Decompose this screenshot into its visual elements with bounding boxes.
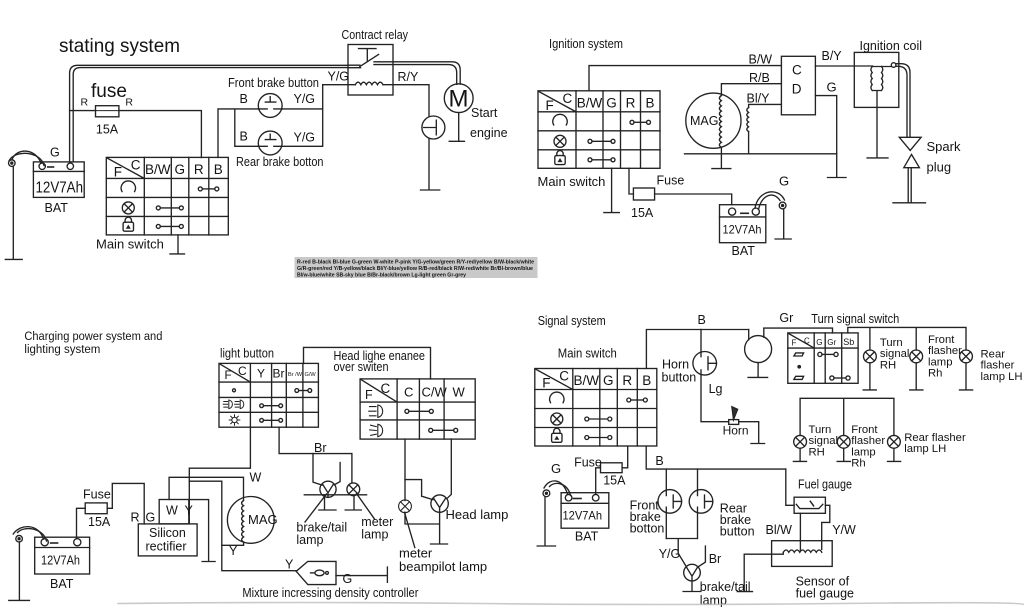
svg-text:MAG: MAG [248,512,278,527]
svg-text:fuel gauge: fuel gauge [796,587,854,601]
svg-text:G: G [816,338,822,347]
svg-text:Fuse: Fuse [574,456,602,470]
svg-text:Turn: Turn [809,424,832,436]
svg-text:Horn: Horn [723,424,749,438]
svg-text:Turn signal switch: Turn signal switch [811,312,899,326]
svg-text:C: C [238,364,247,378]
svg-text:Signal system: Signal system [538,314,606,328]
svg-text:12V7Ah: 12V7Ah [563,509,603,523]
svg-text:W: W [250,471,262,485]
svg-text:RH: RH [809,446,825,458]
svg-text:C: C [404,385,413,400]
svg-text:12V7Ah: 12V7Ah [41,554,80,568]
svg-text:Silicon: Silicon [149,526,186,540]
svg-text:G: G [779,174,789,189]
svg-text:stating system: stating system [59,35,180,57]
svg-text:W: W [453,385,466,400]
svg-text:Fuse: Fuse [83,488,111,502]
svg-text:signal: signal [809,435,839,447]
svg-text:BAT: BAT [50,577,74,591]
svg-text:Contract relay: Contract relay [342,27,409,42]
svg-text:Rear: Rear [981,349,1006,361]
svg-text:Rear brake botton: Rear brake botton [236,155,324,169]
svg-text:lamp: lamp [296,533,323,547]
svg-text:Fuse: Fuse [657,174,685,188]
svg-text:RH: RH [880,359,896,371]
svg-text:B: B [698,313,706,327]
svg-text:Main switch: Main switch [558,346,617,361]
svg-text:R: R [125,97,133,109]
svg-text:Y: Y [257,367,265,381]
svg-text:R/Y: R/Y [398,70,420,84]
svg-text:BAT: BAT [575,530,599,544]
svg-text:B: B [240,92,248,106]
svg-text:D: D [792,82,802,97]
svg-text:G: G [827,80,837,95]
svg-text:12V7Ah: 12V7Ah [723,223,762,237]
svg-text:Main switch: Main switch [538,174,606,189]
svg-text:Bl/W: Bl/W [766,523,793,537]
svg-text:15A: 15A [603,474,626,488]
svg-text:Spark: Spark [927,139,961,154]
svg-text:R: R [81,97,89,109]
svg-text:Lg: Lg [709,382,723,396]
svg-text:B: B [240,130,248,144]
svg-text:C/W: C/W [422,385,448,400]
svg-text:15A: 15A [631,206,654,220]
svg-text:rectifier: rectifier [146,540,187,554]
svg-text:Br /W: Br /W [288,372,303,378]
svg-text:G: G [343,572,353,586]
svg-text:Y: Y [185,504,194,518]
svg-text:flasher: flasher [928,345,962,357]
svg-text:G: G [551,461,561,476]
svg-text:C: C [792,63,802,78]
svg-text:Charging power system and: Charging power system and [24,329,162,343]
svg-text:Br: Br [273,367,285,381]
svg-text:G: G [146,511,156,525]
svg-text:BAT: BAT [732,244,756,258]
svg-text:beampilot lamp: beampilot lamp [399,559,487,574]
svg-text:Y/W: Y/W [832,523,856,537]
svg-text:Br: Br [709,552,722,566]
svg-text:Front brake button: Front brake button [228,76,319,90]
svg-text:W: W [166,504,178,518]
svg-text:F: F [792,339,797,348]
svg-text:Y/G: Y/G [294,92,316,106]
svg-text:M: M [449,86,469,113]
svg-text:Fuel gauge: Fuel gauge [798,478,852,492]
svg-text:lamp LH: lamp LH [904,443,946,455]
svg-text:B/W: B/W [749,53,773,67]
svg-text:Gr: Gr [779,311,793,325]
svg-text:C: C [381,381,391,396]
svg-text:R: R [131,511,140,525]
svg-text:Y/G: Y/G [328,70,350,84]
svg-text:Br: Br [314,441,327,455]
svg-text:engine: engine [470,126,508,140]
svg-text:Y/G: Y/G [294,131,316,145]
svg-text:Y: Y [229,544,238,558]
svg-text:G/R-green/red Y/B-yellow/black: G/R-green/red Y/B-yellow/black Bl/Y-blue… [297,266,534,272]
svg-text:Sb: Sb [843,337,854,347]
svg-text:Mixture incressing density con: Mixture incressing density controller [242,586,418,600]
svg-text:lamp: lamp [851,446,876,458]
svg-text:F: F [365,388,373,402]
svg-text:lighting system: lighting system [24,342,100,356]
svg-text:B/Y: B/Y [822,49,843,63]
svg-text:Rh: Rh [851,458,865,470]
svg-text:Bl/Y: Bl/Y [747,92,771,106]
svg-text:MAG: MAG [690,114,718,128]
svg-text:lamp: lamp [361,528,388,542]
svg-text:G/W: G/W [305,372,317,378]
svg-text:Rear flasher: Rear flasher [904,432,966,444]
svg-text:R-red B-black Bl-blue G-green: R-red B-black Bl-blue G-green W-white P-… [297,260,535,266]
svg-text:Horn: Horn [662,358,689,372]
svg-text:Y: Y [285,558,294,572]
svg-text:button: button [720,525,755,539]
svg-text:light button: light button [220,346,274,361]
svg-text:C: C [804,337,810,346]
svg-text:plug: plug [927,160,952,175]
svg-text:Turn: Turn [880,337,903,349]
svg-text:Start: Start [471,106,498,120]
svg-text:Gr: Gr [827,338,836,347]
svg-text:F: F [225,370,232,382]
svg-text:Main switch: Main switch [96,237,164,252]
svg-text:BAT: BAT [45,201,69,215]
svg-text:lamp LH: lamp LH [981,371,1023,383]
svg-text:R/B: R/B [749,71,770,85]
svg-text:Rh: Rh [928,368,942,380]
svg-text:flasher: flasher [981,360,1015,372]
svg-text:over switen: over switen [334,360,389,374]
svg-text:15A: 15A [96,123,119,137]
svg-text:lamp: lamp [928,356,953,368]
svg-text:12V7Ah: 12V7Ah [36,180,84,197]
svg-text:Ignition coil: Ignition coil [860,39,923,53]
svg-text:lamp: lamp [700,594,727,608]
svg-text:Front: Front [851,424,878,436]
svg-text:signal: signal [880,348,910,360]
svg-text:flasher: flasher [851,435,885,447]
svg-text:botton: botton [630,522,665,536]
svg-text:fuse: fuse [91,81,127,102]
svg-text:Head lamp: Head lamp [446,507,509,522]
svg-text:Bl/w-blue/white SB-sky blue B/: Bl/w-blue/white SB-sky blue B/Br-black/b… [297,273,467,279]
svg-text:Front: Front [928,334,955,346]
svg-text:button: button [662,371,697,385]
svg-text:Ignition system: Ignition system [549,37,623,51]
svg-text:G: G [50,146,60,160]
svg-text:15A: 15A [88,515,111,529]
svg-text:B: B [655,454,663,468]
svg-text:brake/tail: brake/tail [700,580,751,594]
svg-text:Y/G: Y/G [659,547,681,561]
